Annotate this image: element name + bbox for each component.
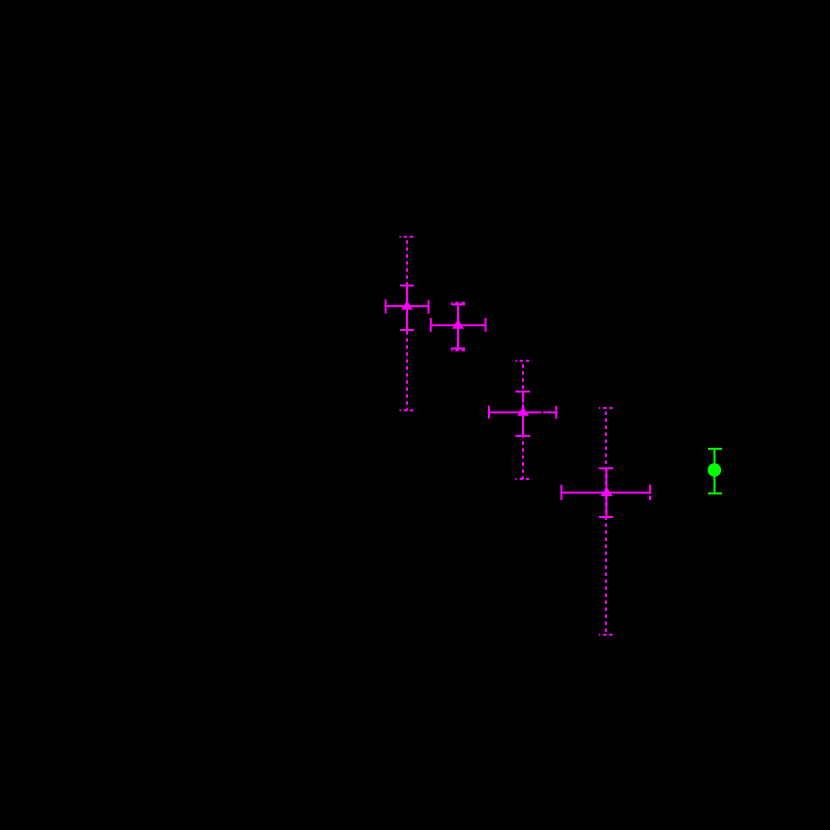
- P4 x right cap upper: [649, 485, 651, 494]
- P3 x right cap: [555, 406, 557, 419]
- P4 dashed syst bottom cap: [599, 634, 613, 636]
- P4 triangle marker: [601, 487, 613, 496]
- P1 x left cap: [385, 299, 387, 313]
- P3 dashed syst vertical line: [522, 361, 524, 479]
- P2 triangle marker: [452, 319, 464, 328]
- P4 stat bottom cap: [599, 516, 613, 518]
- P1 stat bottom cap: [400, 329, 414, 331]
- P4 x right cap lower blob: [649, 496, 651, 500]
- P1 x right cap: [428, 300, 430, 313]
- P1 dashed syst vertical line: [406, 237, 408, 411]
- P4 x left cap: [560, 485, 562, 500]
- P1 triangle marker: [401, 300, 413, 309]
- P3 dashed syst top cap: [515, 360, 530, 362]
- P4 dashed syst top cap: [599, 407, 613, 409]
- P1 x error bar: [386, 305, 429, 307]
- P3 x left cap: [488, 406, 490, 419]
- P5 vertical error line: [714, 449, 716, 494]
- P5 top cap: [708, 448, 722, 450]
- P5 circle marker: [708, 463, 722, 477]
- P2 dashed syst top cap: [451, 302, 465, 304]
- P2 x error bar: [431, 324, 486, 326]
- P2 stat top cap: [451, 303, 465, 305]
- P1 stat top cap: [400, 285, 414, 287]
- P3 x error bar right segment: [543, 411, 556, 413]
- P2 dashed syst bottom cap: [451, 349, 465, 351]
- P2 dashed syst vertical line: [457, 303, 459, 351]
- P3 x error bar left segment: [489, 411, 541, 413]
- P2 x right cap: [485, 318, 487, 332]
- P4 solid stat vertical line: [606, 468, 608, 517]
- P3 triangle marker: [517, 407, 529, 416]
- P3 stat bottom cap: [515, 435, 530, 437]
- P1 dashed syst top cap: [400, 236, 415, 238]
- P4 x error bar: [561, 492, 650, 494]
- P1 dashed syst bottom cap: [400, 409, 415, 411]
- P3 stat top cap: [515, 391, 530, 393]
- P4 dashed syst vertical line: [605, 408, 607, 635]
- P5 bottom cap: [708, 492, 722, 494]
- P2 stat bottom cap: [451, 347, 465, 349]
- P3 solid stat vertical line lower: [522, 404, 524, 436]
- P3 solid stat vertical line upper: [522, 392, 524, 402]
- P2 x left cap: [430, 318, 432, 332]
- P2 solid stat vertical line: [457, 304, 459, 348]
- P1 solid stat vertical line: [406, 286, 408, 335]
- P3 dashed syst bottom cap: [515, 478, 530, 480]
- P4 stat top cap: [599, 467, 613, 469]
